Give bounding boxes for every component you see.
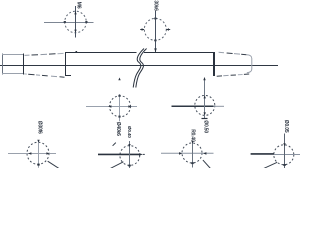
shaft top edge right of break [144,52,214,54]
circle F vertical centerline [284,134,286,169]
svg-text:Ø0.05: Ø0.05 [283,120,289,133]
circle 1 right tick [85,21,87,23]
svg-text:M6: M6 [75,2,81,9]
circle B stub past arrow [143,153,145,155]
circle 2 right stub arrow [166,29,170,31]
left stub right edge [23,54,25,75]
break squiggle line 2 [136,49,147,88]
circle B diagonal leader [110,162,123,169]
circle C left arrow [108,105,111,108]
circle D dimension line thick [172,105,214,107]
svg-text:R0.40: R0.40 [190,129,196,142]
hidden taper line bottom stub-shoulder [24,74,64,77]
circle G vertical centerline [192,141,194,168]
circle G bottom tick [191,162,193,164]
circle G right arrow [203,152,206,155]
circle F top arrow [283,143,285,146]
circle D bottom arrow [204,112,206,115]
circle C horizontal centerline [86,106,137,108]
circle B top arrow [128,144,130,147]
circle B right arrow [139,153,143,156]
circle G top arrow [191,141,193,144]
circle A vertical centerline [38,140,40,168]
circle 1 left tick [64,21,66,23]
circle 1 top arrow [74,11,76,14]
circle G diagonal leader [203,160,211,168]
circle A left arrow [28,152,31,155]
circle G left arrow [179,152,182,155]
circle A horizontal centerline [8,153,56,155]
circle F centerline right [274,154,300,156]
circle 2 bottom tick [154,40,156,42]
circle 2 top tick [154,18,156,20]
circle D T-bar [202,118,208,120]
circle A top arrow [37,140,39,143]
circle B bottom tick [128,165,130,167]
circle 1 horizontal centerline [44,22,94,24]
circle B dimension line thick [98,153,140,155]
svg-text:Ø40k6: Ø40k6 [115,122,121,136]
svg-text:Ø0.40: Ø0.40 [127,126,132,138]
shaft bottom hook [65,75,71,77]
circle F bottom tick [283,164,285,166]
circle 1 bottom arrow [74,30,76,33]
circle G horizontal centerline [161,152,214,154]
section circle F (bottom right) [274,145,294,165]
circle 2 left stub arrow [140,29,144,31]
circle D centerline right [214,105,225,107]
hidden taper bottom right section [217,74,250,76]
circle 2 leader arrow [154,48,157,52]
shaft right end face [213,52,215,76]
left stub rectangle light edges [2,54,24,75]
circle A diagonal leader [48,161,59,168]
break squiggle line 1 [133,49,144,88]
circle D top arrow [204,95,206,98]
svg-text:Ø30f6: Ø30f6 [37,121,43,134]
hidden taper line top stub-shoulder [25,53,64,55]
circle F dimension line thick [251,153,274,155]
shaft shoulder left edge [65,52,67,76]
section circle A (bottom left) [27,142,49,164]
circle B small tick [113,143,116,146]
circle C shaft arrow [118,78,120,81]
circle C right arrow [128,105,131,108]
shaft centerline [0,65,278,67]
circle A bottom tick [37,164,39,166]
section circle 2 (top middle) [144,18,166,40]
section circle C (middle) [110,96,131,117]
circle B vertical centerline [129,141,131,168]
circle 2 leader line [155,11,157,52]
section circle G [182,143,202,163]
circle A right arrow [46,152,49,155]
svg-text:Ø0.50: Ø0.50 [203,120,209,133]
shaft top edge left of break [65,52,137,54]
circle C vertical centerline [119,94,121,121]
section circle B [120,146,140,166]
tick on shaft top [76,51,78,53]
svg-text:30k6: 30k6 [152,0,158,11]
hidden section right end cap [247,55,252,73]
section circle 1 (top left) [65,11,87,33]
hidden taper top right section [219,52,247,55]
circle D leader from shaft [204,80,206,119]
circle 1 vertical dimension line [75,6,77,38]
section circle D [195,95,215,115]
circle D shaft arrow [203,77,205,80]
circle F diagonal leader [264,162,277,168]
